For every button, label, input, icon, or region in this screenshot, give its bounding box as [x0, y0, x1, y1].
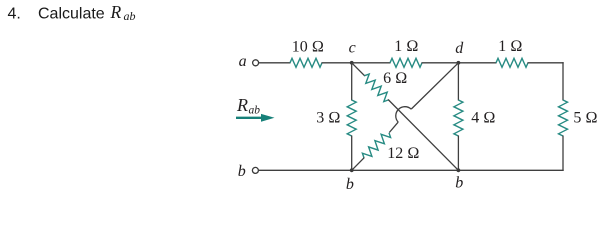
resistor 5 ohm	[559, 100, 568, 136]
node d junction dot	[457, 61, 461, 65]
right vertical wire upper lead	[562, 62, 564, 100]
bottom-right junction dot (node b)	[457, 168, 461, 172]
svg-text:R: R	[110, 2, 122, 22]
resistor 4 ohm	[454, 100, 463, 136]
svg-text:3 Ω: 3 Ω	[316, 110, 340, 127]
svg-text:6 Ω: 6 Ω	[383, 70, 407, 87]
svg-text:a: a	[239, 53, 247, 70]
terminal a (open circle)	[253, 60, 259, 66]
right vertical wire lower lead	[562, 136, 564, 171]
svg-text:d: d	[455, 40, 464, 57]
resistor 3 ohm upper lead	[351, 63, 353, 101]
diagonal wire hop to 12ohm	[389, 122, 398, 132]
wire hop arc over diagonal	[396, 107, 411, 122]
resistor 6 ohm (diagonal)	[365, 74, 389, 102]
svg-text:1 Ω: 1 Ω	[394, 38, 418, 55]
wire 10ohm to node c and on to 1ohm	[322, 62, 391, 64]
svg-text:5 Ω: 5 Ω	[573, 110, 597, 127]
Rab label	[236, 95, 260, 117]
svg-text:ab: ab	[249, 105, 261, 117]
svg-text:c: c	[349, 40, 356, 57]
wire a to resistor 10ohm	[259, 62, 291, 64]
svg-text:4.: 4.	[8, 6, 21, 23]
Rab direction arrow	[236, 114, 275, 122]
resistor 4 ohm upper lead	[457, 63, 459, 101]
diagonal wire d to hop	[411, 63, 458, 109]
svg-text:b: b	[455, 175, 463, 192]
resistor 3 ohm lower lead	[351, 136, 353, 171]
bottom-left junction dot (node b)	[350, 168, 354, 172]
svg-text:4 Ω: 4 Ω	[471, 110, 495, 127]
resistor 1 ohm (c to d)	[390, 58, 422, 67]
svg-text:1 Ω: 1 Ω	[498, 38, 522, 55]
svg-text:b: b	[346, 176, 354, 193]
svg-text:R: R	[236, 95, 248, 115]
svg-text:Calculate: Calculate	[38, 6, 105, 23]
svg-text:10 Ω: 10 Ω	[292, 38, 324, 55]
terminal b (open circle)	[252, 167, 258, 173]
resistor 3 ohm	[347, 100, 356, 136]
resistor 10 ohm	[290, 58, 322, 67]
svg-text:b: b	[238, 163, 246, 180]
resistor 1 ohm (d to corner)	[496, 58, 528, 67]
wire 1ohm to top-right corner	[528, 62, 564, 64]
svg-text:12 Ω: 12 Ω	[387, 145, 419, 162]
diagonal wire c to 6ohm	[352, 63, 365, 76]
diagonal wire 12ohm to bottom-left node b	[352, 158, 365, 171]
diagonal wire 6ohm to bottom-right node b	[388, 100, 458, 171]
svg-text:ab: ab	[124, 9, 136, 23]
problem title "4. Calculate Rab"	[8, 2, 136, 23]
bottom wire b to right corner	[259, 169, 564, 171]
resistor 4 ohm lower lead	[457, 136, 459, 171]
node c junction dot	[350, 61, 354, 65]
wire 1ohm to node d and on to second 1ohm	[422, 62, 497, 64]
resistor 12 ohm (diagonal)	[362, 133, 390, 158]
